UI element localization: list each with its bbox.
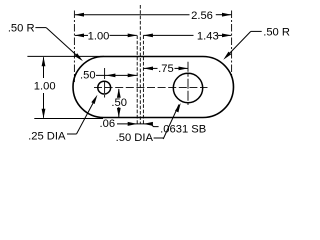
svg-text:.0631 SB: .0631 SB (160, 123, 206, 135)
large hole vertical centerline (187, 62, 189, 105)
dimension .75 (slot line to large hole center) (144, 63, 189, 75)
svg-text:.75: .75 (158, 63, 174, 75)
hole .50 DIA (large circle, right) (173, 73, 202, 102)
dimension 2.56 overall length (75, 10, 232, 22)
svg-text:.06: .06 (100, 118, 116, 130)
svg-text:1.00: 1.00 (34, 80, 56, 92)
svg-text:.50: .50 (80, 70, 96, 82)
dimension .50 vertical (centerline to bottom edge) (111, 88, 127, 117)
horizontal centerline through holes (94, 87, 208, 89)
leader .50 R (top-left radius) (8, 23, 83, 62)
right extent extension line (dash-dot) (231, 11, 233, 77)
bottom edge extension line (34, 118, 103, 120)
leader line to large hole (with arrowhead) (163, 103, 181, 139)
leader .25 DIA (small hole callout) (28, 95, 97, 143)
svg-text:.50 DIA: .50 DIA (116, 132, 154, 144)
dimension 1.43 (slot to right edge) (143, 31, 231, 43)
svg-text:.50 R: .50 R (263, 26, 290, 38)
svg-text:.50 R: .50 R (8, 23, 35, 35)
svg-text:1.43: 1.43 (197, 31, 219, 43)
top edge extension line (27, 55, 104, 57)
svg-text:.50: .50 (111, 97, 127, 109)
svg-text:1.00: 1.00 (88, 31, 110, 43)
leader .50 R (top-right radius) (223, 26, 290, 60)
note .0631 SB (160, 123, 206, 135)
dimension 1.00 vertical (height) (34, 57, 56, 119)
center feature dashed line (left of trio) (136, 35, 138, 123)
center feature dashed line (right of trio) (142, 35, 144, 123)
svg-text:2.56: 2.56 (191, 10, 213, 22)
center feature dashed line (middle of trio, full height) (139, 5, 141, 124)
leader tail to .0631 SB note (151, 124, 159, 127)
small hole vertical centerline (104, 68, 106, 98)
dimension 1.00 (left edge to slot) (75, 31, 138, 43)
dimension .50 (small hole center to slot line) (80, 70, 137, 82)
dimension .06 (slot width) (100, 118, 153, 130)
leader .50 DIA (large hole callout) (116, 132, 164, 144)
hole .25 DIA (small circle, left) (98, 81, 111, 94)
plate outline (stadium shape, 2.56 x 1.00, .50 R ends) (73, 57, 233, 118)
left extent extension line (dash-dot) (73, 11, 75, 83)
svg-text:.25 DIA: .25 DIA (28, 130, 66, 142)
